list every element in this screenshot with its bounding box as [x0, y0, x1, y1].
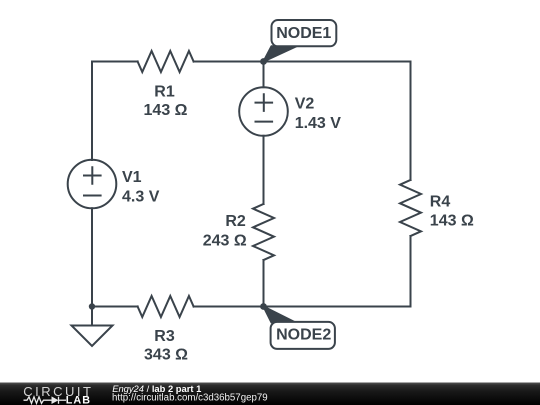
- wire bottom-left segment: [92, 306, 138, 308]
- svg-text:NODE1: NODE1: [276, 25, 331, 42]
- svg-text:343 Ω: 343 Ω: [144, 347, 188, 364]
- voltage source V1: [68, 160, 117, 209]
- resistor R2: [253, 204, 274, 260]
- wire top-left segment: [92, 61, 138, 63]
- svg-text:243 Ω: 243 Ω: [203, 232, 247, 249]
- wire left lower: [91, 208, 93, 306]
- wire bottom-right segment: [194, 306, 411, 308]
- ground: [72, 307, 113, 347]
- voltage source V2: [239, 87, 288, 136]
- label R4 value: [430, 193, 474, 229]
- svg-text:V1: V1: [122, 169, 142, 186]
- svg-text:http://circuitlab.com/c3d36b57: http://circuitlab.com/c3d36b57gep79: [112, 392, 268, 403]
- resistor R4: [400, 180, 421, 236]
- resistor R3: [138, 296, 194, 317]
- svg-text:1.43 V: 1.43 V: [295, 115, 342, 132]
- svg-text:R2: R2: [225, 213, 246, 230]
- node label NODE1: [264, 20, 337, 62]
- footer logo diode triangle: [52, 396, 59, 404]
- svg-text:LAB: LAB: [66, 394, 91, 405]
- wire right upper: [410, 62, 412, 181]
- node junction dot ground: [89, 303, 95, 309]
- wire top-right segment: [194, 61, 411, 63]
- svg-text:143 Ω: 143 Ω: [144, 102, 188, 119]
- wire middle R2-to-bottom: [263, 260, 265, 307]
- svg-text:4.3 V: 4.3 V: [122, 188, 160, 205]
- node junction dot NODE2: [260, 303, 267, 310]
- label R1 value: [144, 83, 188, 119]
- resistor R1: [138, 51, 194, 72]
- wire middle V2-to-R2: [263, 136, 265, 204]
- node label NODE2: [264, 307, 335, 349]
- label V1 value: [122, 169, 160, 205]
- wire left upper: [91, 62, 93, 161]
- svg-text:143 Ω: 143 Ω: [430, 212, 474, 229]
- svg-text:NODE2: NODE2: [276, 327, 331, 344]
- svg-text:R4: R4: [430, 193, 451, 210]
- wire V2 top stub: [263, 62, 265, 88]
- label R2 value: [203, 213, 247, 249]
- svg-text:V2: V2: [295, 96, 315, 113]
- wire right lower: [410, 236, 412, 307]
- footer bar: [0, 383, 540, 405]
- node junction dot NODE1: [260, 58, 267, 65]
- footer logo resistor-diode doodle: [24, 397, 67, 404]
- svg-text:R3: R3: [154, 328, 175, 345]
- label R3 value: [144, 328, 188, 364]
- svg-text:R1: R1: [154, 83, 175, 100]
- label V2 value: [295, 96, 342, 132]
